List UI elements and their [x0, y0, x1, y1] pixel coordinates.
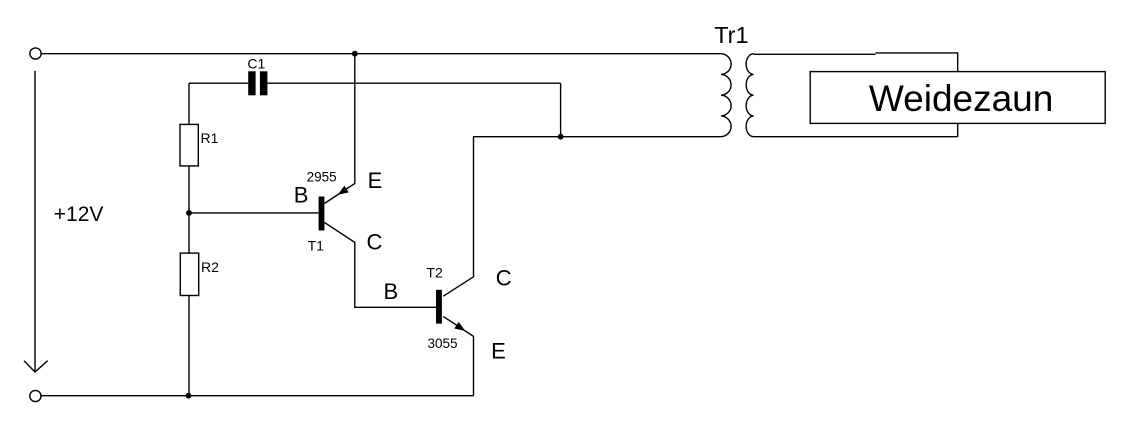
terminal top left	[30, 48, 41, 59]
svg-text:T2: T2	[426, 264, 443, 280]
node junction bottom rail	[186, 393, 192, 399]
svg-text:2955: 2955	[307, 169, 337, 184]
svg-text:Weidezaun: Weidezaun	[869, 78, 1053, 119]
svg-text:+12V: +12V	[54, 203, 104, 226]
node junction top rail	[352, 51, 358, 57]
wire +12V left rail	[34, 71, 36, 372]
svg-text:E: E	[491, 338, 506, 363]
wire T1 collector diagonal down to T2 base	[324, 222, 436, 307]
svg-text:Tr1: Tr1	[714, 22, 748, 48]
resistor R2	[180, 253, 198, 295]
wire T1 base	[189, 212, 319, 214]
wire T2 collector diagonal up to transformer	[443, 137, 721, 297]
svg-text:T1: T1	[308, 238, 325, 254]
wire capacitor left segment	[189, 82, 248, 84]
svg-text:E: E	[368, 168, 383, 193]
wire secondary bottom	[754, 136, 958, 138]
transistor T2 emitter arrow	[454, 322, 465, 331]
node junction transformer bottom feed	[558, 134, 564, 140]
svg-text:C: C	[367, 229, 383, 254]
wire R2 bottom vertical	[188, 296, 190, 396]
wire bottom rail	[41, 395, 474, 397]
svg-text:C: C	[496, 265, 512, 290]
wire R1 bottom to junction	[188, 166, 190, 213]
svg-text:R2: R2	[201, 259, 219, 275]
wire secondary top	[754, 53, 958, 137]
svg-text:R1: R1	[201, 130, 219, 146]
wire capacitor right segment to corner	[267, 83, 560, 137]
transistor T2 base bar	[436, 290, 442, 324]
wire T1 emitter vertical and diagonal	[324, 54, 354, 204]
resistor R1	[180, 124, 198, 165]
transformer Tr1 secondary winding	[746, 54, 753, 137]
svg-text:B: B	[294, 183, 309, 208]
transistor T1 emitter arrow	[338, 186, 349, 195]
wire junction to R2 top	[188, 213, 190, 253]
Weidezaun load box	[810, 72, 1105, 124]
capacitor C1 left plate	[248, 71, 255, 95]
capacitor C1 right plate	[260, 71, 268, 95]
wire top rail	[41, 53, 721, 55]
transformer Tr1 primary winding	[721, 54, 731, 137]
terminal bottom left	[30, 390, 41, 401]
arrow +12V down arrowhead	[24, 361, 48, 372]
transistor T1 base bar	[319, 197, 325, 231]
node junction R1/R2 divider	[186, 210, 192, 216]
wire R1 top vertical	[188, 83, 190, 124]
svg-text:C1: C1	[247, 56, 265, 72]
svg-text:3055: 3055	[428, 336, 458, 351]
wire T2 emitter diagonal down to bottom rail	[443, 316, 473, 395]
svg-text:B: B	[384, 279, 399, 304]
